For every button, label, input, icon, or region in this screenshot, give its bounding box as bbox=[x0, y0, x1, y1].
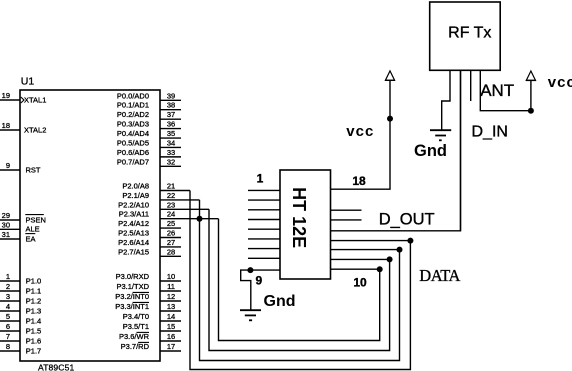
svg-text:10: 10 bbox=[353, 276, 367, 290]
pin 31 EA (U1 left) bbox=[0, 238, 20, 240]
svg-text:DATA: DATA bbox=[419, 266, 460, 285]
pin 11 P3.1/TXD (U1 right, port 3) bbox=[160, 290, 181, 292]
wire HT12E pin 18 to vcc bbox=[331, 80, 391, 189]
pin 16 P3.6/WR (U1 right, port 3) bbox=[160, 340, 181, 342]
svg-text:P2.1/A9: P2.1/A9 bbox=[122, 191, 149, 200]
svg-text:P0.2/AD2: P0.2/AD2 bbox=[117, 110, 149, 119]
svg-text:12: 12 bbox=[167, 292, 175, 301]
svg-text:RF Tx: RF Tx bbox=[448, 25, 491, 42]
ground symbol (HT12E) bbox=[240, 310, 261, 320]
svg-text:Gnd: Gnd bbox=[414, 142, 447, 160]
svg-text:1: 1 bbox=[6, 272, 10, 281]
svg-text:2: 2 bbox=[6, 282, 10, 291]
svg-text:P0.4/AD4: P0.4/AD4 bbox=[117, 129, 149, 138]
HT12E address input stub A1 (pin 2) bbox=[248, 199, 280, 201]
pin 23 P2.2/A10 (U1 right, port 2) bbox=[160, 208, 209, 210]
pin 12 P3.2/INT0 (U1 right, port 3) bbox=[160, 300, 181, 302]
svg-text:P3.7/RD: P3.7/RD bbox=[121, 342, 150, 351]
svg-text:RST: RST bbox=[26, 165, 41, 174]
svg-text:P2.0/A8: P2.0/A8 bbox=[122, 182, 149, 191]
svg-text:P1.5: P1.5 bbox=[26, 326, 41, 335]
HT12E osc stub (pin 15) bbox=[331, 219, 362, 221]
svg-text:HT 12E: HT 12E bbox=[289, 187, 309, 248]
pin 15 P3.5/T1 (U1 right, port 3) bbox=[160, 330, 181, 332]
pin 26 P2.5/A13 (U1 right, port 2) bbox=[160, 237, 181, 239]
svg-text:PSEN: PSEN bbox=[26, 215, 46, 224]
HT12E address input stub A3 (pin 4) bbox=[248, 219, 280, 221]
svg-text:P2.2/A10: P2.2/A10 bbox=[118, 200, 149, 209]
wire P2.2/A10–AD9 bbox=[209, 209, 390, 350]
svg-text:P1.2: P1.2 bbox=[26, 296, 41, 305]
HT12E address input stub A6 (pin 7) bbox=[248, 248, 280, 250]
pin 32 P0.7/AD7 (U1 right, port 0) bbox=[160, 165, 181, 167]
XTAL1 clock arrow bbox=[21, 97, 24, 103]
junction dot data line 4 bbox=[377, 266, 383, 272]
svg-text:10: 10 bbox=[167, 272, 175, 281]
vcc power arrow (left) bbox=[385, 71, 394, 80]
svg-text:18: 18 bbox=[2, 121, 10, 130]
pin 8 P1.7 (U1 left) bbox=[0, 350, 20, 352]
svg-text:39: 39 bbox=[167, 91, 175, 100]
svg-text:P1.1: P1.1 bbox=[26, 286, 41, 295]
HT12E address input stub A7 (pin 8) bbox=[248, 257, 280, 259]
pin 25 P2.4/A12 (U1 right, port 2) bbox=[160, 227, 181, 229]
svg-text:29: 29 bbox=[2, 211, 10, 220]
svg-text:D_OUT: D_OUT bbox=[379, 211, 435, 229]
junction on pin 9 wire bbox=[247, 267, 253, 273]
svg-text:9: 9 bbox=[6, 161, 10, 170]
svg-text:11: 11 bbox=[167, 282, 175, 291]
IC U1 AT89C51 body bbox=[20, 90, 160, 361]
svg-text:9: 9 bbox=[255, 274, 262, 288]
svg-text:D_IN: D_IN bbox=[472, 124, 508, 141]
svg-text:16: 16 bbox=[167, 332, 175, 341]
svg-text:13: 13 bbox=[167, 302, 175, 311]
junction dot on RF vcc wire bbox=[528, 108, 534, 114]
HT12E address input stub A4 (pin 5) bbox=[248, 228, 280, 230]
svg-text:15: 15 bbox=[167, 322, 175, 331]
HT12E address input stub A2 (pin 3) bbox=[248, 209, 280, 211]
svg-text:P3.6/WR: P3.6/WR bbox=[119, 332, 150, 341]
junction dot data line 2 bbox=[397, 247, 403, 253]
pin 10 P3.0/RXD (U1 right, port 3) bbox=[160, 280, 181, 282]
pin 21 P2.0/A8 (U1 right, port 2) bbox=[160, 190, 190, 192]
svg-text:35: 35 bbox=[167, 129, 175, 138]
svg-text:5: 5 bbox=[6, 312, 10, 321]
svg-text:ANT: ANT bbox=[480, 81, 514, 100]
pin 22 P2.1/A9 (U1 right, port 2) bbox=[160, 199, 200, 201]
svg-text:EA: EA bbox=[26, 234, 36, 243]
IC U2 HT 12E body bbox=[280, 170, 331, 279]
wire HT12E pin 9 to ground bbox=[241, 270, 280, 310]
svg-text:31: 31 bbox=[2, 230, 10, 239]
svg-text:4: 4 bbox=[6, 302, 10, 311]
svg-text:27: 27 bbox=[167, 238, 175, 247]
svg-text:XTAL1: XTAL1 bbox=[24, 95, 46, 104]
svg-text:P3.3/INT1: P3.3/INT1 bbox=[115, 302, 149, 311]
wire RF Tx vcc pin to vcc arrow bbox=[480, 70, 531, 110]
svg-text:25: 25 bbox=[167, 219, 175, 228]
junction dot on P2.3 stub bbox=[197, 216, 203, 222]
pin 3 P1.2 (U1 left) bbox=[0, 300, 20, 302]
wire RF Tx D_IN pin bbox=[460, 70, 462, 231]
svg-text:33: 33 bbox=[167, 148, 175, 157]
svg-text:P3.1/TXD: P3.1/TXD bbox=[116, 282, 149, 291]
svg-text:32: 32 bbox=[167, 157, 175, 166]
svg-text:P2.7/A15: P2.7/A15 bbox=[118, 247, 149, 256]
svg-text:P1.3: P1.3 bbox=[26, 306, 41, 315]
svg-text:ALE: ALE bbox=[26, 225, 40, 234]
wire D_OUT (HT12E pin 17 to RF Tx D_IN pin) bbox=[331, 70, 461, 231]
wire RF Tx gnd pin to ground bbox=[442, 70, 450, 130]
svg-text:P2.6/A14: P2.6/A14 bbox=[118, 238, 149, 247]
pin 6 P1.5 (U1 left) bbox=[0, 330, 20, 332]
svg-text:37: 37 bbox=[167, 110, 175, 119]
svg-text:30: 30 bbox=[2, 220, 10, 229]
pin 7 P1.6 (U1 left) bbox=[0, 340, 20, 342]
pin 13 P3.3/INT1 (U1 right, port 3) bbox=[160, 310, 181, 312]
svg-text:vcc: vcc bbox=[548, 74, 572, 91]
svg-text:P3.0/RXD: P3.0/RXD bbox=[116, 272, 150, 281]
pin 2 P1.1 (U1 left) bbox=[0, 290, 20, 292]
svg-text:P0.7/AD7: P0.7/AD7 bbox=[117, 157, 149, 166]
svg-text:P3.2/INT0: P3.2/INT0 bbox=[115, 292, 149, 301]
svg-text:P2.3/A11: P2.3/A11 bbox=[119, 210, 149, 219]
pin 34 P0.5/AD5 (U1 right, port 0) bbox=[160, 146, 181, 148]
wire P2.0/A8–AD11 bbox=[190, 191, 410, 370]
svg-text:1: 1 bbox=[257, 172, 264, 186]
pin 17 P3.7/RD (U1 right, port 3) bbox=[160, 350, 181, 352]
svg-text:AT89C51: AT89C51 bbox=[38, 362, 74, 371]
svg-text:22: 22 bbox=[167, 191, 175, 200]
pin 29 PSEN (U1 left) bbox=[0, 219, 20, 221]
junction dot on vcc line bbox=[387, 116, 393, 122]
svg-text:17: 17 bbox=[167, 342, 175, 351]
svg-text:P2.4/A12: P2.4/A12 bbox=[118, 219, 149, 228]
pin 28 P2.7/A15 (U1 right, port 2) bbox=[160, 255, 181, 257]
pin 9 RST (U1 left) bbox=[0, 169, 20, 171]
svg-text:8: 8 bbox=[6, 342, 10, 351]
HT12E address input stub A5 (pin 6) bbox=[248, 238, 280, 240]
svg-text:18: 18 bbox=[352, 174, 366, 188]
svg-text:26: 26 bbox=[167, 229, 175, 238]
vcc power arrow (right) bbox=[526, 71, 535, 80]
pin 37 P0.2/AD2 (U1 right, port 0) bbox=[160, 118, 181, 120]
svg-text:36: 36 bbox=[167, 120, 175, 129]
svg-text:21: 21 bbox=[167, 182, 175, 191]
svg-text:7: 7 bbox=[6, 332, 10, 341]
junction dot data line 1 bbox=[407, 238, 413, 244]
svg-text:XTAL2: XTAL2 bbox=[24, 125, 46, 134]
pin 38 P0.1/AD1 (U1 right, port 0) bbox=[160, 109, 181, 111]
pin 27 P2.6/A14 (U1 right, port 2) bbox=[160, 246, 181, 248]
HT12E address input stub A0 (pin 1) bbox=[248, 189, 280, 191]
svg-text:P0.5/AD5: P0.5/AD5 bbox=[117, 138, 149, 147]
svg-text:3: 3 bbox=[6, 292, 10, 301]
svg-text:P3.5/T1: P3.5/T1 bbox=[123, 322, 149, 331]
ground symbol (RF Tx) bbox=[430, 129, 451, 131]
svg-text:38: 38 bbox=[167, 101, 175, 110]
svg-text:P2.5/A13: P2.5/A13 bbox=[118, 229, 149, 238]
svg-text:14: 14 bbox=[167, 312, 175, 321]
pin 36 P0.3/AD3 (U1 right, port 0) bbox=[160, 128, 181, 130]
svg-text:23: 23 bbox=[167, 200, 175, 209]
svg-text:P0.1/AD1: P0.1/AD1 bbox=[117, 101, 149, 110]
wire ANT stub bbox=[470, 70, 472, 101]
svg-text:19: 19 bbox=[2, 91, 10, 100]
svg-text:vcc: vcc bbox=[346, 123, 374, 140]
pin 14 P3.4/T0 (U1 right, port 3) bbox=[160, 320, 181, 322]
junction dot data line 3 bbox=[387, 256, 393, 262]
pin 35 P0.4/AD4 (U1 right, port 0) bbox=[160, 137, 181, 139]
svg-text:24: 24 bbox=[167, 210, 175, 219]
svg-text:34: 34 bbox=[167, 138, 175, 147]
pin 18 XTAL2 (U1 left) bbox=[0, 129, 20, 131]
pin 1 P1.0 (U1 left) bbox=[0, 280, 20, 282]
pin 24 P2.3/A11 (U1 right, port 2) bbox=[160, 218, 219, 220]
wire P2.3/A11–AD8(pin10) bbox=[219, 219, 380, 341]
pin 39 P0.0/AD0 (U1 right, port 0) bbox=[160, 99, 181, 101]
pin 4 P1.3 (U1 left) bbox=[0, 310, 20, 312]
svg-text:P0.3/AD3: P0.3/AD3 bbox=[117, 120, 149, 129]
svg-text:P0.6/AD6: P0.6/AD6 bbox=[117, 148, 149, 157]
svg-text:P3.4/T0: P3.4/T0 bbox=[123, 312, 149, 321]
wire P2.1/A9–AD10 bbox=[200, 200, 400, 361]
svg-text:P1.0: P1.0 bbox=[26, 276, 41, 285]
svg-text:Gnd: Gnd bbox=[264, 293, 296, 310]
svg-text:U1: U1 bbox=[21, 76, 35, 88]
svg-text:6: 6 bbox=[6, 322, 10, 331]
pin 30 ALE (U1 left) bbox=[0, 228, 20, 230]
pin 19 XTAL1 (U1 left) bbox=[0, 99, 20, 101]
svg-text:P0.0/AD0: P0.0/AD0 bbox=[117, 91, 149, 100]
svg-text:P1.6: P1.6 bbox=[26, 336, 41, 345]
svg-text:P1.4: P1.4 bbox=[26, 316, 41, 325]
svg-text:28: 28 bbox=[167, 247, 175, 256]
pin 33 P0.6/AD6 (U1 right, port 0) bbox=[160, 156, 181, 158]
pin 5 P1.4 (U1 left) bbox=[0, 320, 20, 322]
HT12E osc stub (pin 16) bbox=[331, 209, 362, 211]
svg-text:P1.7: P1.7 bbox=[26, 346, 41, 355]
RF Tx module body bbox=[430, 2, 501, 70]
